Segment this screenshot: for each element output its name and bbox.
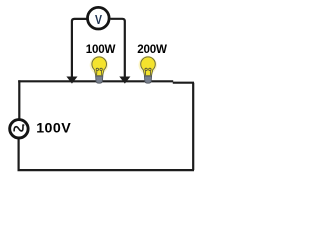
wire: left vertical lower (source to bottom corner) — [18, 139, 20, 171]
svg-text:V: V — [95, 12, 102, 27]
AC sine symbol — [14, 125, 24, 131]
voltmeter V1 circle — [88, 7, 110, 29]
AC source G1 — [10, 120, 28, 138]
wire: left vertical upper (top corner to source) — [18, 80, 20, 119]
svg-text:100W: 100W — [86, 43, 116, 56]
wire: top horizontal (left segment) — [18, 80, 173, 82]
voltmeter branch wire (left side with rounded corner) — [72, 19, 87, 77]
arrowhead left (probe onto node A) — [66, 77, 77, 84]
wire: bottom horizontal — [18, 169, 195, 171]
lamp L2 (200W bulb) — [139, 56, 157, 83]
svg-text:100V: 100V — [36, 120, 71, 136]
arrowhead right (probe onto node B) — [119, 77, 130, 84]
wire: right vertical — [192, 83, 194, 170]
svg-text:200W: 200W — [137, 43, 167, 56]
voltmeter branch wire (right side with rounded corner) — [110, 19, 124, 77]
wire: top horizontal (right segment, small step down) — [173, 82, 194, 84]
lamp L1 (100W bulb) — [90, 56, 108, 83]
